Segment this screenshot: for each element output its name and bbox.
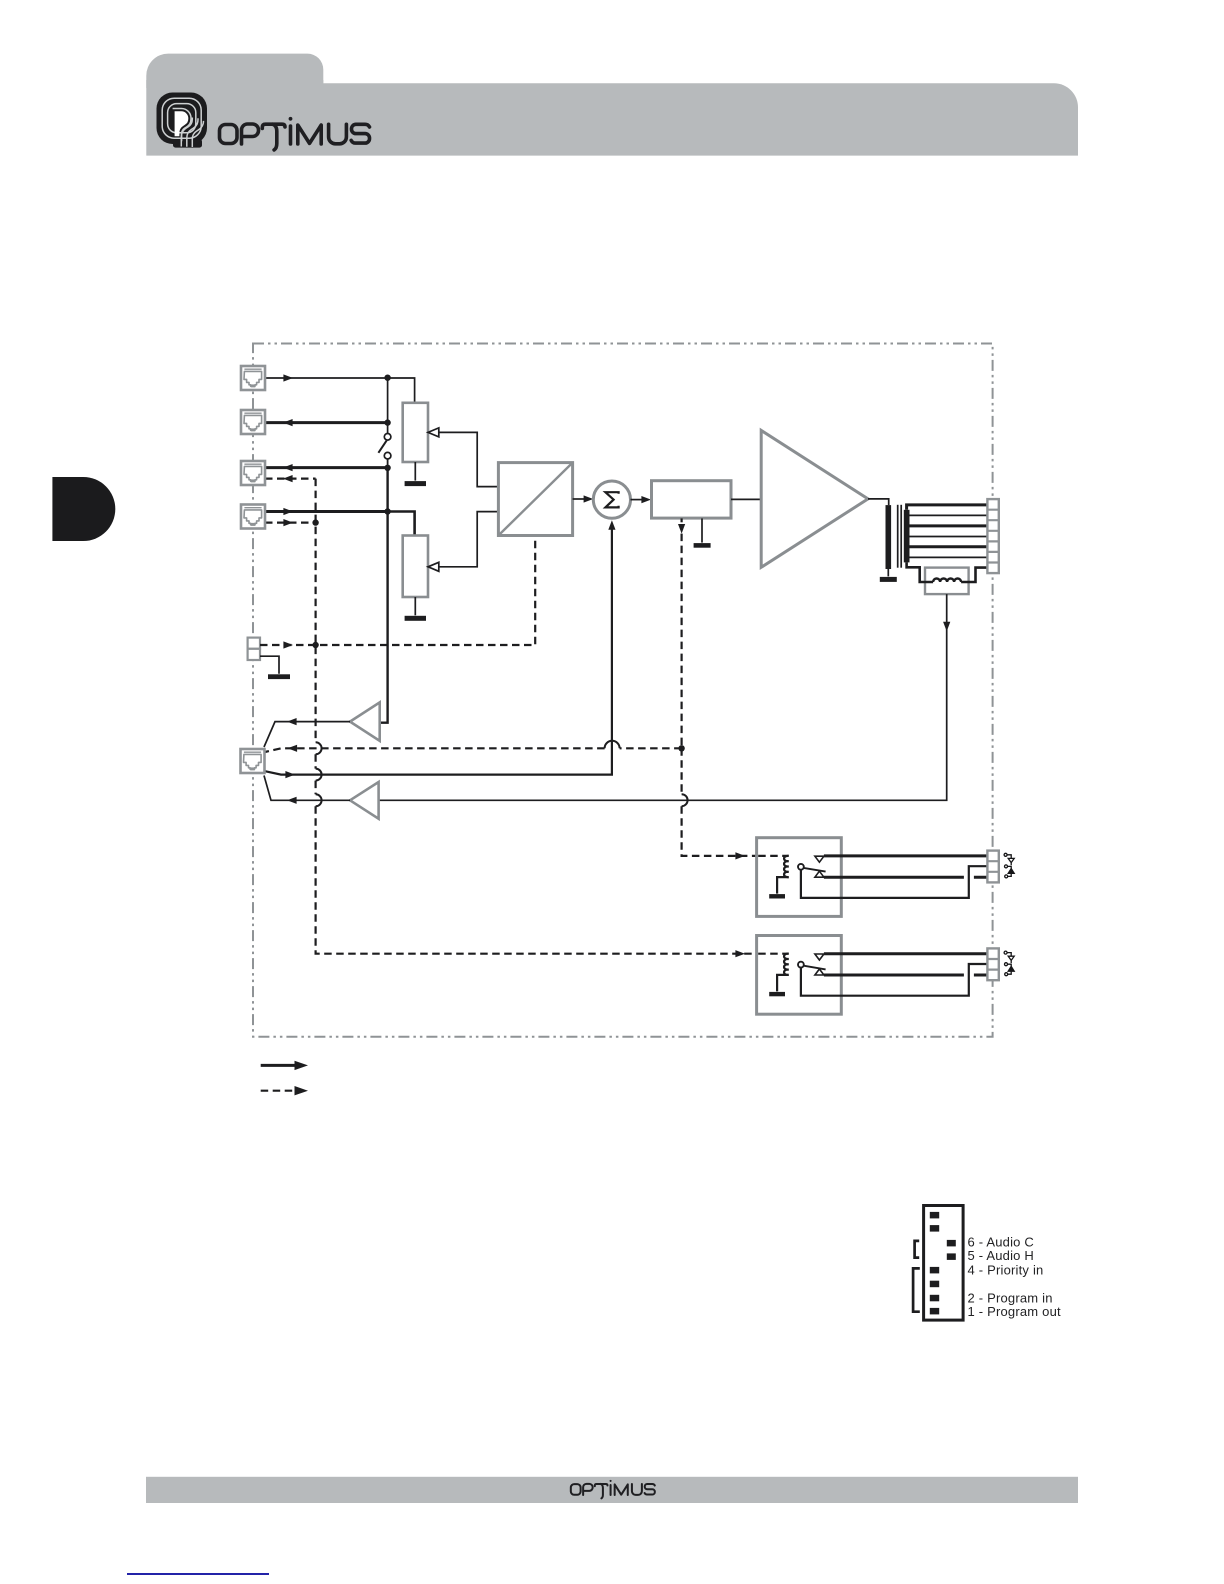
wiper P1 to crossfader [428, 428, 498, 487]
svg-text:1 - Program out: 1 - Program out [968, 1304, 1062, 1319]
dashed control rail x315 with hops to relay K2 [316, 479, 789, 958]
pin 8 [930, 1212, 939, 1219]
dashed wire D4: priority sense from input 4 [265, 519, 316, 526]
footer rule [127, 1573, 269, 1575]
buffer B1 [350, 702, 380, 741]
wire U4 to transformer [868, 499, 889, 505]
VCA block U3 [652, 481, 732, 518]
inductor L1 coil and wiring [907, 562, 988, 582]
jumper block J5 [248, 638, 260, 660]
program-in wire J6 to summing node [265, 520, 616, 778]
wordmark OPTIMUS [220, 117, 370, 150]
pin 6 [947, 1240, 956, 1247]
relay K1 [757, 838, 988, 917]
line-out wire from L1 to buffer B2 [379, 594, 951, 800]
wiper P2 to crossfader [428, 512, 498, 572]
potentiometer P1 [403, 403, 428, 462]
terminal strip TS1 [987, 499, 998, 573]
wire U2 to VCA [631, 496, 652, 503]
wire W1: input 1 to level rail [265, 374, 415, 402]
logo mark [157, 93, 208, 148]
wire U3 to amplifier [731, 498, 761, 500]
potentiometer P2 [403, 536, 428, 598]
header banner [146, 83, 1078, 155]
switch S1 (open) [378, 434, 391, 468]
left margin tab [52, 477, 115, 541]
wire W4: input 4 to rail [265, 508, 415, 536]
svg-text:5 - Audio H: 5 - Audio H [968, 1248, 1035, 1263]
bracket small [915, 1241, 920, 1258]
secondary taps to terminal strip [907, 505, 988, 558]
dashed control drop to relay K1 [682, 748, 789, 859]
connector J1 [241, 366, 265, 390]
connector J3 [241, 461, 265, 485]
inductor L1 box [925, 568, 969, 595]
ground G1 (P1) [405, 462, 426, 486]
wire U1 to summing node [573, 495, 594, 502]
pin 7 [930, 1225, 939, 1232]
dashed wire D3: priority sense from input 3 [265, 475, 316, 482]
pin 2 [930, 1295, 939, 1302]
wire W2: rail to output 2 [265, 419, 388, 426]
wire rail long segment to buffer B1 [380, 468, 388, 723]
transformer T1 secondary [904, 510, 910, 563]
amplifier U4 [761, 430, 868, 567]
terminal strip TS2 [987, 851, 998, 883]
junction dot A2 [384, 419, 390, 425]
footer wordmark [571, 1480, 655, 1498]
connector J4 [241, 505, 265, 529]
ground G4 (U3) [694, 518, 711, 547]
bracket large [913, 1268, 920, 1311]
pin 5 [947, 1253, 956, 1260]
pin 3 [930, 1281, 939, 1288]
junction dot B1 [312, 519, 318, 525]
transformer T1 primary [886, 505, 892, 569]
junction dot C1 [678, 745, 684, 751]
legend solid arrow [261, 1061, 308, 1070]
transformer T1 core [898, 505, 902, 568]
legend dashed arrow [261, 1086, 308, 1095]
junction dot B2 [312, 642, 318, 648]
dashed mute wire to connector J6 [265, 741, 682, 752]
svg-text:4 - Priority in: 4 - Priority in [968, 1263, 1044, 1278]
relay K1 contact icons [1004, 853, 1014, 878]
connector J2 [241, 410, 265, 434]
header tab [146, 54, 323, 88]
junction dot A4 [384, 508, 390, 514]
dashed wire from jumper to crossfader [260, 536, 535, 649]
terminal strip TS3 [987, 948, 998, 980]
relay K2 contact icons [1004, 951, 1014, 976]
wire B1 to connector J6 [264, 718, 350, 747]
junction dot A1 [384, 375, 390, 381]
pin 4 [930, 1267, 939, 1274]
wire W3: rail to output 3 [265, 464, 388, 471]
dashed control drop from U3 [678, 518, 685, 748]
enclosure border (dash-dot-dot) [253, 344, 993, 1037]
wire rail upper segment [387, 378, 389, 434]
ground G5 (primary) [880, 569, 897, 582]
wire B2 to connector J6 [264, 776, 350, 804]
connector J6 [241, 749, 265, 773]
ground G2 (P2) [405, 597, 426, 621]
crossfader block U1 [498, 463, 572, 536]
footer bar [146, 1477, 1078, 1503]
pin labels [968, 1235, 1062, 1320]
summing node U2 [593, 481, 630, 518]
pin header PJ1 body [924, 1206, 964, 1321]
buffer B2 [350, 782, 379, 819]
relay K2 [757, 936, 988, 1015]
junction dot A3 [384, 465, 390, 471]
pin 1 [930, 1308, 939, 1315]
ground G3 (jumper) [260, 656, 290, 679]
